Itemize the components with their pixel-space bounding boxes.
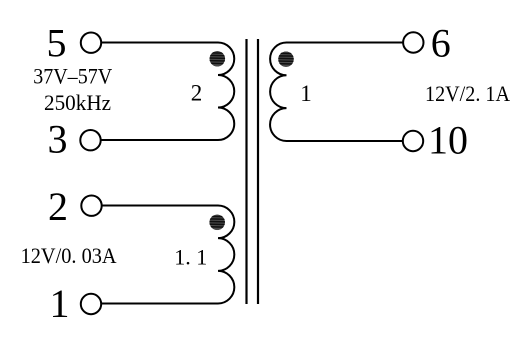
pin 5 terminal xyxy=(81,33,101,53)
pin 1 terminal xyxy=(81,294,101,314)
transformer core (two vertical bars) xyxy=(247,39,259,304)
polarity dot winding 2 xyxy=(208,51,226,67)
svg-text:37V–57V: 37V–57V xyxy=(33,64,112,89)
polarity dot winding 1 xyxy=(277,51,295,67)
svg-text:250kHz: 250kHz xyxy=(44,90,111,115)
pin 2 terminal xyxy=(81,196,101,216)
svg-text:12V/2. 1A: 12V/2. 1A xyxy=(425,81,510,106)
svg-text:2: 2 xyxy=(48,184,68,229)
svg-text:3: 3 xyxy=(48,116,68,161)
pin 10 terminal xyxy=(403,131,423,151)
svg-text:1: 1 xyxy=(300,81,312,106)
svg-text:12V/0. 03A: 12V/0. 03A xyxy=(21,243,117,268)
svg-text:1: 1 xyxy=(50,281,70,326)
pin 6 terminal xyxy=(403,32,423,52)
svg-text:6: 6 xyxy=(431,20,451,65)
winding 1 (secondary, pins 6-10) wire and coil xyxy=(270,43,403,142)
winding 1.1 (auxiliary, pins 2-1) wire and coil xyxy=(101,206,234,304)
svg-text:1. 1: 1. 1 xyxy=(174,245,207,270)
polarity dot winding 1.1 xyxy=(208,215,226,231)
pin 3 terminal xyxy=(80,130,100,150)
winding 2 (primary, pins 5-3) wire and coil xyxy=(101,43,235,141)
svg-text:10: 10 xyxy=(428,118,468,163)
svg-text:5: 5 xyxy=(47,21,67,66)
svg-text:2: 2 xyxy=(191,80,203,105)
